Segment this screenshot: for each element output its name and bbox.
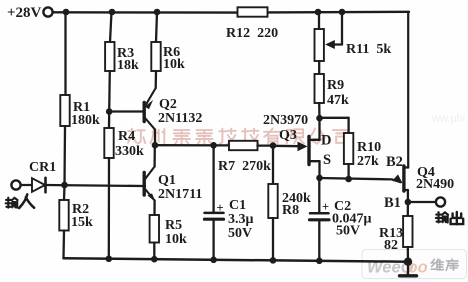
- svg-text:180k: 180k: [71, 113, 100, 128]
- svg-text:27k: 27k: [357, 154, 379, 169]
- svg-text:2N1132: 2N1132: [158, 111, 202, 126]
- svg-text:CR1: CR1: [29, 160, 56, 175]
- svg-text:D: D: [321, 133, 331, 149]
- svg-text:R8: R8: [282, 203, 299, 218]
- svg-text:+28V: +28V: [7, 5, 42, 21]
- svg-text:2N1711: 2N1711: [158, 187, 202, 202]
- svg-text:R5: R5: [165, 218, 182, 233]
- svg-text:2N490: 2N490: [416, 177, 454, 192]
- svg-text:R9: R9: [327, 78, 344, 93]
- svg-text:B2: B2: [386, 154, 403, 170]
- svg-text:2N3970: 2N3970: [263, 113, 308, 128]
- svg-text:50V: 50V: [228, 226, 252, 241]
- svg-text:47k: 47k: [327, 93, 349, 108]
- svg-text:18k: 18k: [117, 58, 139, 73]
- svg-text:Q3: Q3: [279, 128, 297, 143]
- svg-text:R10: R10: [357, 140, 381, 155]
- svg-text:10k: 10k: [163, 57, 185, 72]
- svg-text:Q2: Q2: [159, 97, 177, 112]
- svg-text:10k: 10k: [165, 232, 187, 247]
- svg-text:R12 220: R12 220: [226, 26, 278, 41]
- svg-text:B1: B1: [384, 195, 401, 211]
- svg-text:330k: 330k: [115, 144, 144, 159]
- svg-text:82: 82: [384, 238, 398, 253]
- svg-text:C1: C1: [229, 198, 246, 213]
- svg-text:S: S: [323, 152, 331, 168]
- svg-text:R4: R4: [118, 129, 135, 144]
- svg-text:15k: 15k: [71, 215, 93, 230]
- svg-text:R7 270k: R7 270k: [218, 159, 271, 174]
- svg-text:+: +: [217, 201, 224, 215]
- svg-text:50V: 50V: [336, 224, 360, 239]
- svg-text:+: +: [322, 200, 329, 214]
- svg-text:Q1: Q1: [158, 173, 176, 188]
- svg-text:ww.phi: ww.phi: [431, 113, 465, 125]
- svg-text:R11 5k: R11 5k: [346, 42, 391, 57]
- svg-text:3.3μ: 3.3μ: [228, 212, 254, 227]
